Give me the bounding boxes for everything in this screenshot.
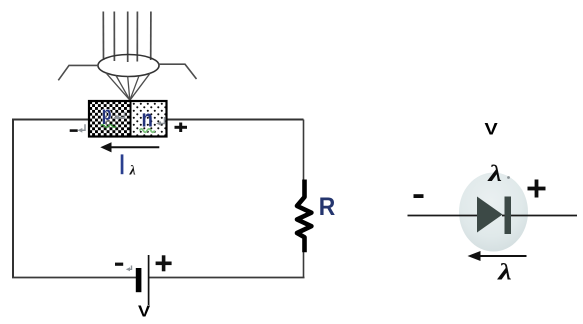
label + (cathode) xyxy=(528,180,546,198)
diode D1 cathode bar xyxy=(505,197,512,235)
formatting mark (return) right of p xyxy=(117,112,125,118)
light arrow λ xyxy=(479,255,527,257)
battery negative plate xyxy=(136,268,142,292)
formatting mark (return) at battery xyxy=(128,266,132,270)
current arrow Iλ xyxy=(110,146,159,148)
p region (checkered) xyxy=(89,101,131,137)
diode D1 triangle xyxy=(477,197,503,233)
formatting mark (return) left of box xyxy=(80,124,86,130)
wire right lower xyxy=(303,251,305,278)
svg-text:R: R xyxy=(319,193,336,221)
wire bottom-left xyxy=(12,277,138,279)
svg-text:λ: λ xyxy=(497,260,512,285)
n region (dotted) xyxy=(131,101,167,137)
label - (anode) xyxy=(414,194,424,198)
lens holder right xyxy=(159,64,197,79)
wire top-right xyxy=(166,119,304,121)
node - (left of box) xyxy=(70,129,78,132)
svg-text:λ: λ xyxy=(487,161,502,186)
anode lead xyxy=(408,215,478,217)
node + (right of box) xyxy=(175,123,188,133)
grammar squiggle under p xyxy=(101,125,116,128)
wire right upper xyxy=(303,120,305,183)
svg-text:p: p xyxy=(102,104,112,125)
battery positive plate xyxy=(148,255,150,305)
lens xyxy=(98,55,159,77)
wire bottom-right xyxy=(149,277,305,279)
lens holder left xyxy=(58,65,98,80)
wire left xyxy=(12,120,14,278)
battery - label xyxy=(115,263,123,266)
battery + label xyxy=(156,255,172,271)
p-n box border xyxy=(89,101,167,137)
svg-text:λ: λ xyxy=(129,163,136,178)
svg-text:V: V xyxy=(485,121,498,139)
stray dot xyxy=(507,176,510,179)
lens focus rays xyxy=(106,73,150,100)
light rays xyxy=(103,12,151,63)
cathode lead xyxy=(502,215,577,217)
svg-text:V: V xyxy=(138,304,151,321)
label I xyxy=(121,154,124,174)
photodiode body xyxy=(459,173,528,252)
svg-text:n: n xyxy=(142,106,153,133)
resistor R xyxy=(297,180,311,253)
p-n divider xyxy=(130,101,132,137)
formatting mark (return) right of n xyxy=(159,117,165,124)
wire top-left xyxy=(12,119,89,121)
grammar squiggle under n xyxy=(140,129,155,132)
